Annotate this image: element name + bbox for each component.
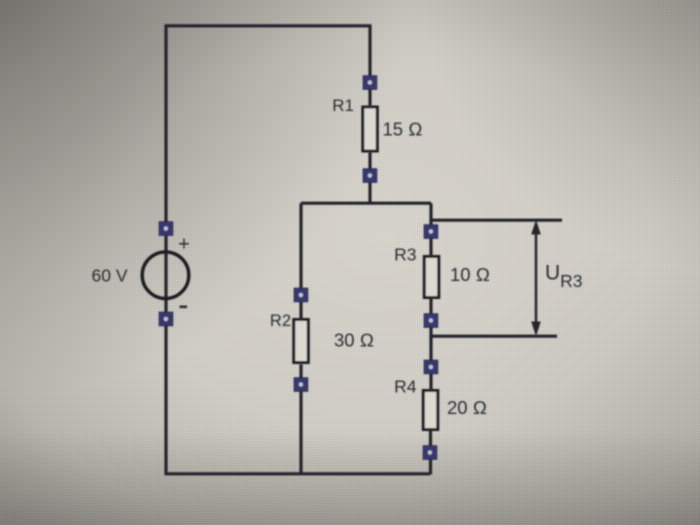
svg-text:30 Ω: 30 Ω [334,330,374,351]
svg-text:20 Ω: 20 Ω [447,397,487,418]
svg-text:R2: R2 [270,312,291,330]
wire top [165,24,372,27]
wire UR3 bottom [431,335,557,338]
wire bottom [165,472,431,475]
resistor R1 body [363,107,378,151]
svg-text:15 Ω: 15 Ω [383,119,423,140]
voltage arrow UR3 [531,220,541,337]
node below source [159,312,173,326]
svg-text:R3: R3 [394,245,416,265]
wire R2 branch upper [299,203,302,319]
wire UR3 top [431,219,562,222]
wire R3 branch upper [429,203,432,256]
node R2 top [294,288,308,302]
node R2 bottom [294,378,308,392]
resistor R2 body [294,320,309,363]
resistor R4 body [423,391,438,430]
wire left [164,26,167,475]
node R1 bottom [363,169,377,183]
node R1 top [363,76,377,90]
svg-text:60 V: 60 V [92,266,128,286]
node R3 top [424,225,438,239]
node R3 bottom [424,314,438,328]
voltage source V1 60V circle [142,252,189,299]
V1 minus sign [180,305,188,308]
wire R3-R4 middle [429,298,432,390]
wire R4 branch lower [429,430,432,475]
wire R2 branch lower [299,364,302,475]
svg-text:10 Ω: 10 Ω [450,264,490,285]
svg-text:+: + [178,234,190,256]
wire R1 branch lower [368,152,371,204]
wire R1 branch upper [368,26,371,106]
node R4 bottom [423,446,437,460]
node above source [159,222,173,236]
wire middle horizontal [301,202,431,205]
node R4 top [424,360,438,374]
resistor R3 body [424,257,439,298]
svg-text:R4: R4 [394,377,417,397]
svg-text:R1: R1 [332,96,354,115]
